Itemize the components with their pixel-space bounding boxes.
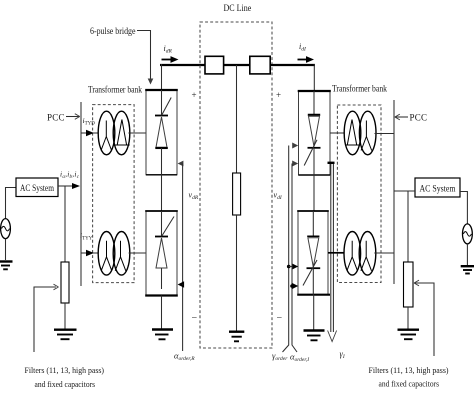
transformer T3 upper-right (D-Y) [344,111,376,155]
wire C1 to ground [236,215,238,331]
pointer to left filter [34,284,59,352]
wire between DC line boxes [224,64,250,66]
label idI with arrow [298,42,315,63]
svg-text:−: − [192,313,198,324]
ground right AC source [461,266,474,273]
svg-text:and fixed capacitors: and fixed capacitors [35,380,96,389]
svg-text:PCC: PCC [47,113,65,123]
ground right converter [304,331,325,341]
wire T3 to PCC bus right [375,133,395,135]
svg-text:−: − [277,313,283,324]
AC System box left [16,178,58,197]
wire bus to AC System right [394,190,415,192]
svg-text:Transformer bank: Transformer bank [88,85,142,95]
ground left converter [152,330,173,340]
svg-text:+: + [192,90,197,100]
ground DC line [229,332,244,342]
thyristor Q4 in U4 (pointing down) [303,211,320,295]
ground left AC source [0,262,13,270]
svg-text:and fixed capacitors: and fixed capacitors [379,380,440,389]
filter branch right [404,191,414,329]
wire bus to upper-left transformer with arrow [81,130,99,136]
AC source left [1,188,16,261]
node mid DC line down wire [236,65,238,173]
label PCC left with arrow [47,113,80,123]
label ia,ib,ic [60,170,80,181]
svg-text:Filters (11, 13, high pass): Filters (11, 13, high pass) [25,366,105,375]
alpha order R signal line [178,161,185,351]
wire U2 to ground [161,296,163,330]
inverter valve box U3 upper-right [298,91,331,175]
label Filters left [25,366,105,389]
label Filters right [369,366,449,389]
svg-text:AC System: AC System [20,183,54,193]
AC source right [460,192,472,266]
wire T1 to rectifier upper box [128,132,146,134]
label PCC right with arrow [395,113,427,123]
svg-text:Filters (11, 13, high pass): Filters (11, 13, high pass) [369,366,449,375]
thyristor Q2 in U2 (pointing up) [155,211,174,289]
rectifier valve box U1 upper-left [145,90,178,175]
wire T2 to rectifier lower box [129,252,146,254]
DC bus heavy wire right [270,64,315,66]
wire U3 to upper-right transformer [330,132,344,134]
smoothing reactor/resistance box left on DC bus [205,56,224,74]
DC bus heavy wire left [160,64,205,66]
gamma I measurement outline arrow [328,163,337,342]
AC System box right [415,178,460,197]
transformer bank dashed box left [93,105,135,283]
wire bus to lower-left transformer with arrow [81,250,99,256]
label 6-pulse bridge with pointer [90,26,153,85]
transformer T2 lower-left (Y-Y) [98,232,130,276]
pointer to right filter [414,280,434,356]
label idR with arrow [162,44,179,63]
filter branch left [61,186,69,329]
wire bus down to inverter U3 [313,64,315,91]
PCC bus left [80,102,82,286]
wire U1 to U2 [161,175,163,211]
ground left filter [54,330,77,340]
DC line dashed box [200,22,272,348]
svg-text:PCC: PCC [410,113,428,123]
smoothing reactor/resistance box right on DC bus [250,56,270,74]
gamma order signal line [283,143,299,353]
PCC bus right [393,100,395,284]
transformer T1 upper-left (Y-D) [98,111,130,155]
svg-text:AC System: AC System [420,183,456,193]
wire U4 to ground [313,295,315,330]
wire U3 to U4 [313,175,315,211]
ground right filter [398,330,420,340]
wire T4 to PCC bus right [374,252,394,254]
svg-text:6-pulse bridge: 6-pulse bridge [90,26,136,36]
svg-text:+: + [276,90,281,100]
alpha order I signal line [290,161,298,353]
wire AC System to PCC bus with current arrow [58,183,80,189]
transformer T4 lower-right (Y-Y) [344,232,376,276]
transformer bank dashed box right [337,105,381,283]
thyristor Q1 in U1 (pointing up) [155,90,171,175]
svg-text:DC Line: DC Line [224,3,252,13]
capacitor/line element C1 vertical box [233,173,241,215]
rectifier valve box U2 lower-left [145,211,178,296]
wire bus down to rectifier U1 [161,64,163,90]
inverter valve box U4 lower-right [297,211,330,295]
wire U4 to lower-right transformer [328,252,344,254]
thyristor Q3 in U3 (pointing down) [304,91,320,175]
svg-text:Transformer bank: Transformer bank [332,84,387,94]
